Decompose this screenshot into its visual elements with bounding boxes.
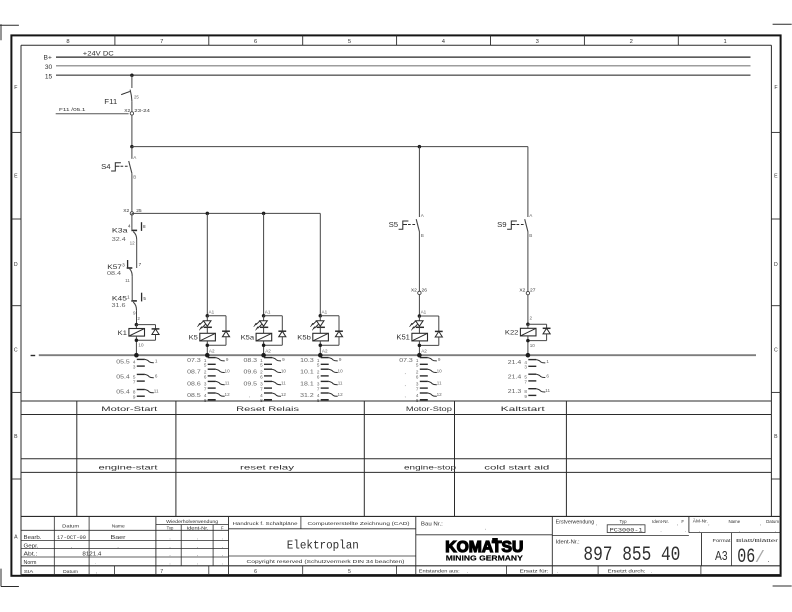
svg-text:7: 7 (160, 39, 163, 45)
label reset relay (240, 464, 295, 471)
svg-text:31.2: 31.2 (300, 393, 314, 399)
svg-text:7: 7 (260, 387, 263, 392)
svg-text:,: , (197, 560, 198, 565)
svg-text:10: 10 (530, 343, 536, 348)
svg-text:9: 9 (282, 357, 285, 362)
svg-text:Ident-Nr.: Ident-Nr. (652, 519, 669, 524)
wire X2:26 to relay K51 (419, 295, 426, 316)
junction feeder A (130, 145, 134, 149)
crop mark bottom-right (773, 585, 792, 587)
svg-text:,: , (71, 544, 72, 549)
svg-text:Datum: Datum (62, 524, 79, 530)
svg-text:F: F (221, 526, 224, 531)
svg-text:7: 7 (317, 387, 320, 392)
terminal X2:27 (519, 288, 535, 295)
svg-text:9: 9 (133, 395, 136, 400)
svg-text:.: . (467, 569, 468, 574)
svg-text:897 855 40: 897 855 40 (583, 544, 680, 567)
svg-text:K1: K1 (118, 330, 128, 337)
row reference letters (11, 85, 780, 541)
svg-text:A1: A1 (322, 309, 328, 314)
svg-text:K22: K22 (505, 330, 519, 337)
svg-text:,: , (405, 394, 406, 399)
svg-text:.: . (699, 527, 700, 532)
svg-text:,: , (249, 394, 250, 399)
svg-text:Typ: Typ (167, 526, 174, 531)
svg-text:/: / (755, 549, 765, 568)
svg-text:,: , (596, 521, 597, 526)
switch S5 (389, 213, 425, 238)
svg-text:,: , (405, 383, 406, 388)
wire feeder A to S5 (418, 147, 420, 217)
svg-text:X2: X2 (519, 288, 525, 294)
svg-text:+24V DC: +24V DC (83, 50, 114, 57)
fuse F11 (104, 90, 139, 106)
svg-text:8: 8 (143, 224, 146, 229)
svg-text:.: . (557, 569, 558, 574)
relay K1 coil (135, 323, 139, 329)
svg-text:08.3: 08.3 (244, 358, 258, 364)
switch S4 (101, 155, 137, 180)
svg-text:Datum: Datum (63, 569, 78, 575)
svg-text:B: B (133, 175, 136, 180)
svg-text:A1: A1 (209, 309, 215, 314)
svg-text:08.6: 08.6 (187, 382, 201, 388)
title block left section (21, 516, 229, 574)
wire feeder B to relay K5 (206, 212, 215, 316)
svg-text:.: . (485, 526, 486, 532)
svg-text:engine-start: engine-start (99, 464, 158, 471)
title block Bau Nr. cell (416, 521, 553, 534)
svg-text:26: 26 (422, 287, 428, 293)
svg-text:08.4: 08.4 (107, 271, 121, 277)
svg-text:05.4: 05.4 (116, 390, 130, 396)
svg-text:11: 11 (545, 388, 550, 393)
svg-text:9: 9 (524, 394, 527, 399)
svg-text:F: F (681, 519, 684, 524)
svg-text:,: , (222, 552, 223, 557)
svg-text:11: 11 (154, 389, 159, 394)
svg-text:5: 5 (143, 296, 146, 301)
svg-text:,: , (117, 544, 118, 549)
svg-text:18.1: 18.1 (300, 382, 314, 388)
svg-text:9: 9 (438, 357, 441, 362)
svg-text:5: 5 (204, 363, 207, 368)
column reference numbers (top band) (66, 35, 726, 45)
svg-text:Erstverwendung: Erstverwendung (556, 519, 595, 525)
label Motor-Start (101, 406, 157, 413)
svg-text:9: 9 (133, 311, 136, 316)
svg-text:K57: K57 (107, 264, 122, 271)
svg-text:30: 30 (45, 64, 53, 71)
crop mark top-right (773, 23, 792, 25)
svg-text:05.4: 05.4 (116, 375, 130, 381)
svg-text:Gepr.: Gepr. (24, 543, 39, 549)
svg-text:1: 1 (155, 359, 158, 364)
svg-text:,: , (677, 521, 678, 526)
svg-text:,: , (96, 569, 97, 574)
contact K3a (112, 222, 146, 245)
svg-text:7: 7 (416, 387, 419, 392)
svg-text:.: . (95, 560, 96, 565)
svg-text:Elektroplan: Elektroplan (287, 539, 359, 553)
svg-text:6: 6 (260, 374, 263, 379)
svg-text:Copyright reserved (Schutzverm: Copyright reserved (Schutzvermerk DIN 34… (247, 559, 406, 565)
wire K51 to bus (418, 341, 428, 355)
contact table K5 (187, 357, 230, 403)
svg-text:12: 12 (130, 240, 136, 245)
svg-text:Ersatz für:: Ersatz für: (520, 568, 549, 574)
contact table K22 (508, 359, 551, 399)
svg-text:10.3: 10.3 (300, 358, 314, 364)
svg-text:B: B (529, 233, 532, 238)
svg-text:32.4: 32.4 (112, 237, 126, 243)
svg-text:7: 7 (160, 569, 163, 575)
wire K45 to relay K1 (136, 310, 138, 324)
wire K5 to bus (206, 341, 215, 355)
svg-text:ÄM-Nr.: ÄM-Nr. (693, 519, 708, 524)
svg-text:X2: X2 (411, 287, 417, 293)
svg-text:S4: S4 (101, 164, 111, 171)
svg-text:6: 6 (546, 373, 549, 378)
svg-text:A2: A2 (265, 348, 271, 353)
svg-text:6: 6 (254, 39, 257, 45)
svg-text:F11: F11 (104, 99, 117, 106)
svg-text:SIA: SIA (24, 569, 34, 575)
title block KM-Nr Name Datum header (693, 519, 780, 533)
svg-text:,: , (405, 370, 406, 375)
svg-text:1: 1 (723, 39, 726, 45)
svg-text:25: 25 (134, 94, 139, 99)
svg-text:2: 2 (530, 315, 533, 320)
diode of K5b (320, 316, 339, 345)
diode of K51 (419, 316, 438, 345)
svg-text:6: 6 (155, 374, 158, 379)
svg-text:F: F (14, 85, 17, 91)
KOMATSU logo (445, 538, 523, 563)
svg-text:Entstanden aus:: Entstanden aus: (419, 568, 460, 574)
svg-text:Ersetzt durch:: Ersetzt durch: (608, 568, 646, 574)
svg-text:B: B (14, 434, 18, 440)
svg-text:,: , (197, 552, 198, 557)
junction K5a bus (261, 353, 266, 358)
svg-text:06: 06 (737, 546, 755, 569)
svg-text:05.5: 05.5 (116, 360, 130, 366)
svg-text:A3: A3 (715, 548, 728, 563)
svg-text:10: 10 (338, 368, 344, 373)
svg-text:11: 11 (437, 381, 442, 386)
svg-text:10: 10 (138, 343, 144, 348)
svg-text:21.4: 21.4 (508, 360, 522, 366)
svg-text:Computererstellte Zeichnung (C: Computererstellte Zeichnung (CAD) (308, 521, 411, 526)
svg-text:C: C (774, 347, 778, 353)
wire K5a to bus (262, 341, 271, 355)
svg-text:.: . (660, 527, 661, 532)
svg-text:PC3000-1: PC3000-1 (610, 528, 643, 534)
svg-text:C: C (14, 347, 18, 353)
label cold start aid (484, 464, 550, 471)
wire feeder B horizontal (131, 213, 133, 215)
wire S9 to terminal X2:27 (527, 232, 529, 292)
label Reset Relais (236, 406, 299, 413)
svg-text:.: . (651, 569, 652, 574)
svg-text:S5: S5 (389, 222, 399, 229)
wire S5 to terminal X2:26 (418, 232, 420, 292)
terminal X2:25 (123, 208, 142, 215)
svg-text:3: 3 (524, 365, 527, 370)
cross reference F11 /05.1 (56, 107, 129, 114)
svg-text:B: B (774, 434, 778, 440)
diode of K1 (136, 325, 155, 341)
svg-text:10: 10 (437, 368, 443, 373)
svg-text:Motor-Start: Motor-Start (101, 406, 157, 413)
wire fuse to terminal X2:23-24 (131, 101, 133, 111)
contact K45 (112, 293, 147, 322)
svg-text:Blatt/Blätter: Blatt/Blätter (736, 538, 779, 543)
svg-text:Motor-Stop: Motor-Stop (406, 406, 453, 413)
svg-text:Handruck f. Schaltpläne: Handruck f. Schaltpläne (233, 521, 298, 526)
svg-text:8: 8 (66, 39, 69, 45)
svg-text:A2: A2 (209, 348, 215, 353)
terminal X2:23-24 (124, 108, 150, 115)
svg-text:Norm: Norm (24, 560, 37, 566)
title block frame (21, 516, 780, 574)
svg-text:10: 10 (225, 368, 231, 373)
wire junction to S4 (131, 147, 133, 159)
wire K3a to contact K57 (136, 240, 138, 268)
relay K5b coil with LED (319, 314, 323, 321)
label Kaltstart (501, 406, 545, 413)
junction K1 bus (134, 353, 139, 358)
node B+ rail (44, 55, 751, 62)
wire feeder A corner to S9 (527, 147, 529, 217)
svg-text:,: , (708, 521, 709, 526)
svg-text:07.3: 07.3 (399, 358, 413, 364)
svg-text:5: 5 (348, 39, 351, 45)
title block Blatt cell (737, 546, 769, 569)
svg-text:S9: S9 (497, 222, 507, 229)
svg-text:17-OCT-00: 17-OCT-00 (57, 535, 86, 541)
svg-text:12: 12 (281, 392, 287, 397)
svg-text:10: 10 (281, 368, 287, 373)
svg-text:6: 6 (254, 569, 257, 575)
svg-text:23-24: 23-24 (134, 108, 150, 114)
svg-text:Baer: Baer (111, 535, 126, 541)
svg-text:6: 6 (416, 374, 419, 379)
terminal X2:26 (411, 287, 427, 294)
svg-text:Reset Relais: Reset Relais (236, 406, 299, 413)
svg-text:11: 11 (125, 278, 130, 283)
svg-text:.: . (739, 527, 740, 532)
function description table (21, 401, 771, 516)
crop mark bottom-left (1, 569, 19, 587)
svg-text:5: 5 (317, 363, 320, 368)
svg-text:engine-stop: engine-stop (404, 464, 457, 471)
wire K57 to contact K45 (131, 276, 133, 300)
svg-text:2: 2 (630, 39, 633, 45)
junction K22 bus (526, 353, 531, 358)
diode of K22 (528, 324, 547, 340)
svg-text:Abt.:: Abt.: (24, 552, 38, 558)
svg-text:11: 11 (225, 381, 230, 386)
wire K5b to bus (319, 341, 328, 355)
svg-text:7: 7 (524, 379, 527, 384)
svg-text:21.3: 21.3 (508, 389, 522, 395)
contact table K1 (116, 359, 159, 400)
svg-text:1: 1 (546, 359, 549, 364)
footer band (24, 566, 397, 575)
svg-text:,: , (169, 552, 170, 557)
svg-text:A: A (14, 534, 18, 540)
svg-text:.: . (768, 555, 770, 564)
title block Wiederholverwendung section (156, 516, 229, 574)
junction feeder A at S5 (418, 145, 422, 149)
wire feeder B to relay K5b (320, 213, 327, 315)
diode of K5 (207, 316, 226, 345)
svg-text:Format: Format (713, 538, 732, 543)
svg-text:,: , (169, 544, 170, 549)
wire feeder A horizontal (132, 146, 528, 148)
node 15 rail (45, 73, 751, 80)
svg-text:10.1: 10.1 (300, 369, 314, 375)
svg-text:K5b: K5b (297, 335, 311, 342)
svg-text:K5: K5 (189, 335, 199, 342)
label engine-start (99, 464, 158, 471)
svg-text:7: 7 (139, 262, 142, 267)
node 31 minus bus (31, 354, 756, 356)
contact K57 (107, 260, 142, 283)
footer Entstanden aus cell (419, 566, 507, 575)
svg-text:Datum: Datum (766, 519, 779, 524)
relay K5a coil with LED (262, 314, 266, 321)
svg-text:reset relay: reset relay (240, 464, 295, 471)
footer Ersatz fuer cell (520, 566, 599, 575)
wire X2:25 to contact K3a (131, 215, 133, 230)
node 30 rail (45, 64, 751, 71)
junction on 15 rail (130, 73, 134, 77)
switch S9 (497, 213, 533, 238)
svg-text:Wiederholverwendung: Wiederholverwendung (166, 519, 219, 524)
wire feeder B to relay K5a (262, 212, 271, 316)
svg-text:21.4: 21.4 (508, 374, 522, 380)
svg-text:08.7: 08.7 (187, 369, 201, 375)
svg-text:,: , (222, 560, 223, 565)
wire terminal to feeder node (131, 115, 133, 147)
svg-text:X2: X2 (124, 108, 130, 114)
title block Format cell (702, 533, 779, 566)
svg-text:,: , (197, 544, 198, 549)
svg-text:A1: A1 (265, 309, 271, 314)
svg-text:Ident-Nr.:: Ident-Nr.: (556, 540, 580, 546)
svg-text:5: 5 (416, 363, 419, 368)
svg-text:K5a: K5a (241, 335, 255, 342)
svg-text:Typ: Typ (619, 519, 627, 524)
svg-text:,: , (197, 535, 198, 540)
svg-text:Name: Name (112, 524, 125, 530)
contact table K5b (300, 357, 343, 403)
svg-text:15: 15 (45, 73, 53, 80)
wire 15 rail to fuse F11 (131, 75, 133, 88)
svg-text:7: 7 (133, 380, 136, 385)
svg-text:6: 6 (317, 374, 320, 379)
svg-text:6: 6 (204, 374, 207, 379)
svg-text:Kaltstart: Kaltstart (501, 406, 545, 413)
svg-text:31.6: 31.6 (112, 303, 126, 309)
svg-text:K51: K51 (396, 335, 410, 342)
svg-text:08.5: 08.5 (187, 393, 201, 399)
svg-text:Name: Name (728, 519, 740, 524)
contact table K51 (399, 357, 442, 403)
svg-text:27: 27 (530, 288, 536, 294)
contact table K5a (244, 357, 287, 403)
svg-text:09.6: 09.6 (244, 369, 258, 375)
svg-text:2: 2 (137, 316, 140, 321)
junction K51 bus (417, 353, 422, 358)
svg-text:E: E (774, 174, 778, 180)
svg-text:,: , (760, 521, 761, 526)
svg-text:3: 3 (133, 365, 136, 370)
diode of K5a (264, 316, 283, 345)
svg-text:,: , (222, 544, 223, 549)
svg-text:Ident-Nr.: Ident-Nr. (187, 526, 209, 531)
svg-text:F: F (774, 85, 777, 91)
junction K5b bus (318, 353, 323, 358)
relay K51 coil with LED (418, 314, 422, 320)
svg-text:5: 5 (348, 569, 351, 575)
svg-text:9: 9 (226, 357, 229, 362)
svg-text:A1: A1 (421, 310, 427, 315)
svg-text:E: E (14, 174, 18, 180)
title block drawing name section (229, 516, 416, 574)
wire X2:27 to relay K22 (528, 295, 533, 325)
crop mark top-left (0, 24, 19, 40)
svg-text:K3a: K3a (112, 227, 128, 234)
svg-text:,: , (222, 535, 223, 540)
svg-text:F11 /05.1: F11 /05.1 (59, 107, 86, 113)
svg-text:9: 9 (339, 357, 342, 362)
svg-text:7: 7 (204, 387, 207, 392)
svg-text:12: 12 (225, 392, 231, 397)
wire K22 to bus (526, 336, 535, 355)
svg-text:07.3: 07.3 (187, 358, 201, 364)
svg-text:MINING GERMANY: MINING GERMANY (446, 554, 523, 563)
svg-text:12: 12 (338, 392, 344, 397)
label engine-stop (404, 464, 457, 471)
wire S4 to terminal X2:25 (131, 173, 133, 211)
svg-text:X2: X2 (123, 208, 129, 214)
svg-text:Bearb.: Bearb. (24, 535, 42, 541)
relay K5 coil with LED (206, 314, 210, 321)
svg-text:B: B (421, 233, 424, 238)
svg-text:11: 11 (338, 381, 343, 386)
svg-text:K45: K45 (112, 295, 128, 302)
svg-text:B+: B+ (44, 55, 52, 62)
svg-text:Bau Nr.:: Bau Nr.: (421, 521, 443, 527)
svg-text:.: . (685, 527, 686, 532)
svg-text:5: 5 (260, 363, 263, 368)
wire K1 to bus (135, 336, 144, 355)
svg-text:.: . (775, 527, 776, 532)
title block Erstverwendung section (552, 516, 780, 574)
svg-text:A2: A2 (322, 348, 328, 353)
svg-text:cold start aid: cold start aid (484, 464, 550, 471)
label Motor-Stop (406, 406, 453, 413)
+24V DC label (83, 50, 114, 57)
svg-text:11: 11 (281, 381, 286, 386)
svg-text:12: 12 (437, 392, 443, 397)
junction K5 bus (205, 353, 210, 358)
svg-text:3: 3 (536, 39, 539, 45)
